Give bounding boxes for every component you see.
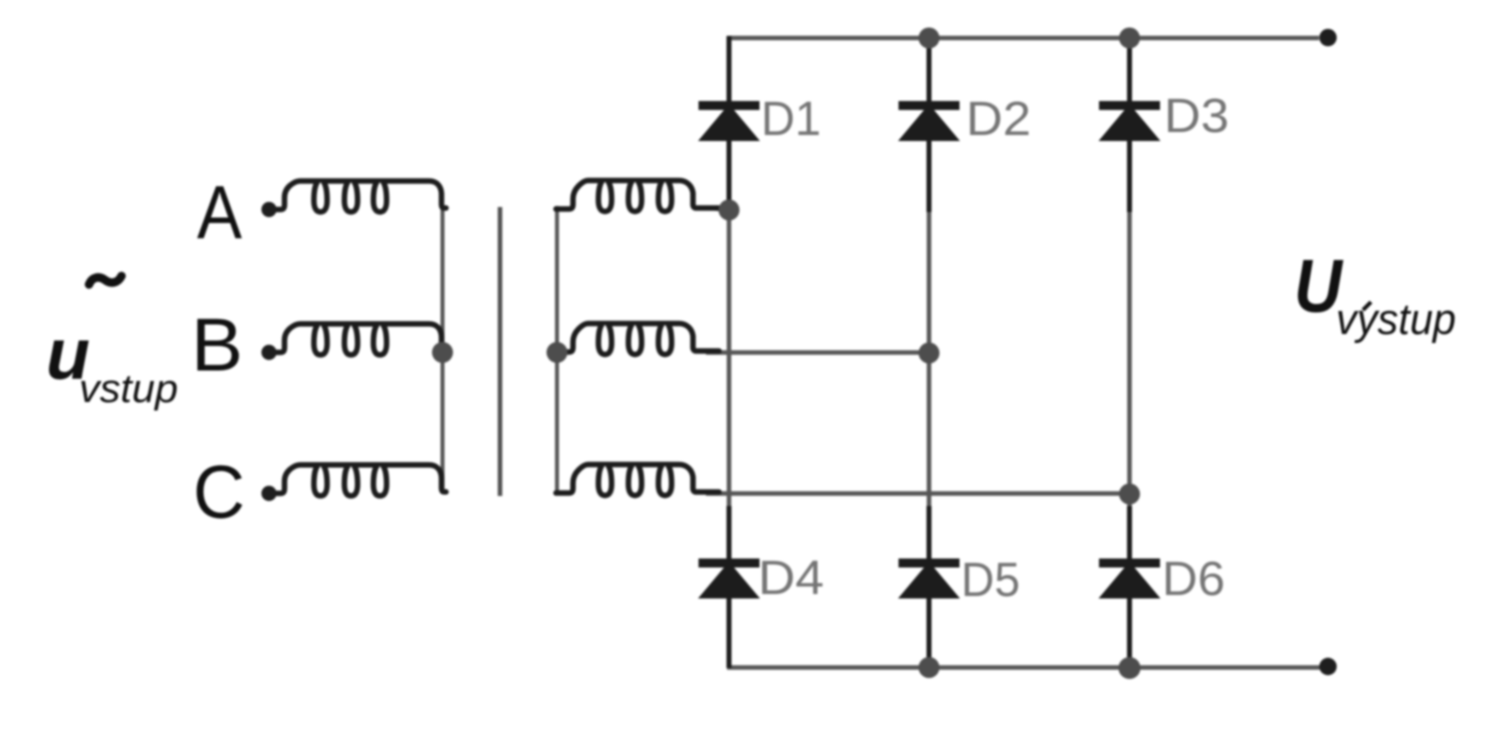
svg-text:C: C bbox=[193, 450, 245, 534]
svg-text:D3: D3 bbox=[1164, 90, 1229, 143]
svg-text:D6: D6 bbox=[1162, 553, 1225, 606]
svg-text:A: A bbox=[197, 170, 242, 254]
svg-text:D1: D1 bbox=[761, 93, 821, 146]
svg-text:D4: D4 bbox=[758, 552, 824, 605]
svg-text:D5: D5 bbox=[961, 554, 1020, 607]
svg-text:D2: D2 bbox=[966, 93, 1031, 146]
svg-text:vstup: vstup bbox=[79, 367, 178, 411]
svg-text:B: B bbox=[191, 303, 243, 387]
svg-text:vystup: vystup bbox=[1336, 295, 1456, 344]
